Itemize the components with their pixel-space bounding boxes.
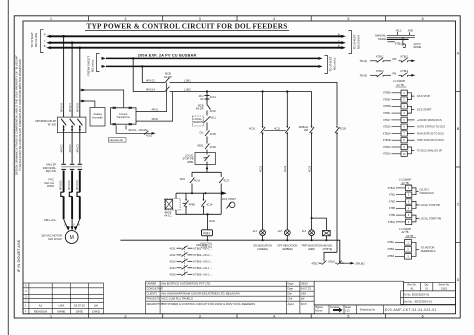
overload element B <box>77 192 80 196</box>
wire annunciator tap <box>312 218 327 230</box>
svg-text:4C20: 4C20 <box>209 220 216 223</box>
MPCB pole B <box>77 119 82 133</box>
svg-text:DATE: DATE <box>76 309 83 313</box>
svg-text:4: 4 <box>273 17 275 21</box>
svg-text:1:10: 1:10 <box>345 311 350 313</box>
contactor linkage <box>61 166 82 168</box>
svg-text:4SS1: 4SS1 <box>197 144 204 148</box>
svg-text:KTB08: KTB08 <box>383 105 391 108</box>
bracket local stop <box>412 202 419 209</box>
svg-text:4L3: 4L3 <box>302 230 307 233</box>
arrow to sheet left B <box>46 46 51 49</box>
svg-text:(RED): (RED) <box>308 248 315 251</box>
arrow CT tap <box>81 89 86 92</box>
svg-text:4L2: 4L2 <box>278 230 283 233</box>
svg-text:5A-DP: 5A-DP <box>196 107 204 111</box>
svg-text:KTB03—NO-3 →: KTB03—NO-3 → <box>194 261 213 264</box>
svg-text:4PV1-R: 4PV1-R <box>60 103 64 112</box>
junction dot chain tap <box>206 90 208 92</box>
svg-text:4PVC02: 4PVC02 <box>67 180 71 190</box>
svg-text:4PU1: 4PU1 <box>152 108 159 112</box>
wire control N line <box>171 91 312 93</box>
arrow to sheet right R <box>341 35 346 38</box>
busbar Y phase <box>51 42 342 44</box>
terminal strip A1TB <box>383 90 407 156</box>
junction dot Y tap <box>71 41 74 44</box>
linkage wire contacts <box>264 129 286 131</box>
arrow to sheet left Y <box>46 41 51 44</box>
svg-text:Job No.: E0323024-01: Job No.: E0323024-01 <box>403 299 432 303</box>
svg-text:1: 1 <box>50 315 52 319</box>
svg-text:6A-DP: 6A-DP <box>164 75 172 79</box>
svg-text:4C22: 4C22 <box>283 165 287 172</box>
company title table <box>146 281 315 314</box>
svg-text:3: 3 <box>199 17 201 21</box>
aux contact row 2 <box>170 252 213 257</box>
ruler ticks bottom <box>88 314 385 318</box>
svg-text:Dsn: Dsn <box>288 292 293 296</box>
svg-text:UESA: UESA <box>301 282 308 286</box>
selector switch 4SL1 manual/auto <box>375 34 386 41</box>
wire RUN STATUS TO DCS <box>407 132 414 134</box>
svg-text:KTB10: KTB10 <box>383 126 391 129</box>
ammeter P1 <box>90 108 105 127</box>
svg-text:4C1B: 4C1B <box>340 128 347 131</box>
svg-text:A2 TB: A2 TB <box>406 234 413 238</box>
junction dot latch top <box>206 167 208 169</box>
svg-text:DCS START: DCS START <box>417 108 432 112</box>
label contactor KM1 <box>43 163 57 174</box>
svg-text:LW: LW <box>301 297 305 301</box>
contactor KM1 pole Y <box>70 164 75 169</box>
svg-text:4C16: 4C16 <box>194 180 201 183</box>
wire latch top split <box>192 168 221 176</box>
svg-text:01/01: 01/01 <box>441 288 448 291</box>
arrow ammeter tap <box>81 100 86 103</box>
junction dot mid rail 2 <box>204 192 206 194</box>
local stop PB box <box>195 153 216 165</box>
svg-text:4C10: 4C10 <box>249 128 256 131</box>
svg-text:2-1.5QMM: 2-1.5QMM <box>399 178 411 181</box>
svg-text:Sheet No.: Sheet No. <box>439 284 450 287</box>
contact DCS stop <box>205 143 210 153</box>
wire CT secondary 4PU2 <box>136 92 173 122</box>
svg-text:OWNER: OWNER <box>147 283 157 286</box>
cable segment Y lower <box>71 196 73 219</box>
svg-text:SI No: E0323024-01: SI No: E0323024-01 <box>403 293 430 297</box>
svg-text:CHKD: CHKD <box>92 309 100 313</box>
svg-text:KTBL1: KTBL1 <box>376 55 384 58</box>
svg-text:4SU2: 4SU2 <box>146 134 153 137</box>
interlock contact row 2 <box>360 70 416 78</box>
svg-text:USA: USA <box>59 304 65 308</box>
wire AUTO STATUS TO DCS <box>407 126 414 128</box>
wire control L line <box>171 83 338 126</box>
svg-text:M: M <box>70 235 74 241</box>
svg-text:200A EXP. 2A PV CU BUSBAR: 200A EXP. 2A PV CU BUSBAR <box>138 54 197 58</box>
hooter contact 1 <box>319 261 326 265</box>
svg-text:LOCAL START PB: LOCAL START PB <box>420 217 442 221</box>
contact remote branch <box>219 176 224 193</box>
svg-text:MTB1: MTB1 <box>388 241 395 244</box>
wire into motor V <box>71 219 73 230</box>
svg-text:4PVC3: 4PVC3 <box>76 144 80 153</box>
selector switch 4SL1 <box>192 116 203 126</box>
title underline <box>85 30 289 32</box>
svg-text:Date: Date <box>288 287 294 291</box>
svg-text:KTB1B: KTB1B <box>383 139 391 142</box>
branch test PB column <box>335 127 340 252</box>
svg-text:KTB04—NC-1 →: KTB04—NC-1 → <box>194 267 213 270</box>
wire labels 4PVC01-03 <box>59 180 79 190</box>
arrow to sheet right B <box>341 46 346 49</box>
wire B mid <box>79 133 81 164</box>
push button DCS start <box>226 203 231 209</box>
svg-text:(AMBER): (AMBER) <box>282 248 293 251</box>
arrow to sheet right Y <box>341 41 346 44</box>
svg-text:AND: AND <box>408 30 413 33</box>
aux contact row 5 <box>170 272 213 277</box>
wire coil to neutral <box>207 236 209 240</box>
svg-text:OVERLOCK: OVERLOCK <box>420 191 435 195</box>
paper edge line <box>7 0 9 335</box>
svg-text:IF IN DOUBT ASK: IF IN DOUBT ASK <box>16 239 21 272</box>
svg-text:LOCAL STOP PB: LOCAL STOP PB <box>420 203 441 207</box>
svg-text:Transformer: Transformer <box>116 116 130 119</box>
svg-text:4C02: 4C02 <box>210 110 217 113</box>
arrowhead W <box>74 226 77 231</box>
svg-text:Y: Y <box>338 39 340 43</box>
arrow to sheet left R <box>46 35 51 38</box>
svg-text:4C04: 4C04 <box>170 267 177 270</box>
wire into motor W <box>76 219 80 230</box>
svg-text:DCS START: DCS START <box>222 198 236 201</box>
junction dot L1 tap <box>132 57 134 59</box>
svg-text:PM: PM <box>393 72 397 75</box>
wire labels 4PV1 4PV2 4PV3 <box>60 103 80 112</box>
wire labels 4PVC1-3 <box>60 144 80 153</box>
svg-text:R: R <box>338 32 340 36</box>
svg-text:'M' S/D: 'M' S/D <box>48 123 57 127</box>
svg-text:MCC CUM PLC PANELS: MCC CUM PLC PANELS <box>162 297 193 301</box>
cable segment B upper <box>79 171 81 193</box>
disclaimer note rotated left margin <box>15 55 22 175</box>
svg-text:Neutral Link: Neutral Link <box>110 139 124 142</box>
motor M <box>65 231 78 244</box>
svg-text:DM: DM <box>393 58 397 61</box>
bracket to sheet top-right <box>349 31 352 54</box>
hooter contact 2 <box>335 261 351 265</box>
bracket DCS start <box>407 106 414 113</box>
svg-text:+24V/0V FROM DCS: +24V/0V FROM DCS <box>417 118 442 122</box>
svg-text:Y: Y <box>44 39 46 43</box>
svg-text:4PVC01: 4PVC01 <box>59 180 63 190</box>
arrowhead U <box>67 226 70 231</box>
interlock contact row 1 <box>360 55 416 63</box>
svg-text:TYP POWER & CONTROL CIRCUI: TYP POWER & CONTROL CIRCUIT FOR DOL FEED… <box>87 23 288 31</box>
svg-text:TYP POWER & CONTROL CIRCUIT FO: TYP POWER & CONTROL CIRCUIT FOR 16KW & 4… <box>162 302 256 306</box>
svg-text:A2 TB: A2 TB <box>402 231 409 234</box>
wire Y mid <box>71 133 73 164</box>
timer block 4MCB 4A-1C <box>164 198 180 210</box>
svg-text:NAME: NAME <box>57 309 65 313</box>
svg-text:4C21: 4C21 <box>258 165 262 172</box>
switch MCB 5A-DP <box>207 103 211 114</box>
bracket to motor terminals <box>412 242 420 256</box>
svg-text:E03-AMF-CKT-33-24-024-01: E03-AMF-CKT-33-24-024-01 <box>385 308 437 312</box>
ruler ticks right <box>456 92 461 243</box>
lamp branch ON <box>261 92 266 230</box>
bracket overload interlock <box>412 188 419 195</box>
contact O/L trip <box>205 130 210 143</box>
contact start PB local <box>183 193 189 214</box>
svg-text:Template: Template <box>330 306 340 309</box>
svg-text:KN.5: KN.5 <box>301 302 307 306</box>
svg-text:KTB11: KTB11 <box>388 221 396 224</box>
svg-text:NO.xx/xx: NO.xx/xx <box>91 59 95 72</box>
junction dot N tap <box>141 65 143 67</box>
svg-text:TO DCS ANALOG I/P: TO DCS ANALOG I/P <box>417 148 442 152</box>
junction dot R tap <box>62 35 65 38</box>
MPCB pole Y <box>70 119 75 133</box>
svg-text:Drawing No.: Drawing No. <box>360 308 376 312</box>
svg-text:4A-1C: 4A-1C <box>164 215 171 218</box>
lamp branch TRIP <box>310 92 315 230</box>
svg-text:KTB11: KTB11 <box>383 112 391 115</box>
aux contact row 3 <box>170 259 213 264</box>
svg-text:4C03: 4C03 <box>170 261 177 264</box>
MCB 6A-DP pole 1 <box>165 78 171 83</box>
svg-text:KTB1A: KTB1A <box>383 132 391 135</box>
grid numbers top <box>50 17 424 21</box>
svg-text:2-1.5QMM: 2-1.5QMM <box>393 80 405 83</box>
wire latch mid rail <box>176 193 221 198</box>
busbar control L1 <box>106 57 318 59</box>
svg-text:NO.xx/xx: NO.xx/xx <box>333 57 337 70</box>
svg-text:6A: 6A <box>200 97 203 101</box>
svg-text:4PVC03: 4PVC03 <box>75 180 79 190</box>
svg-text:TRIP STATUS TO DCS: TRIP STATUS TO DCS <box>417 138 444 142</box>
label TO SHEET NO.xx/xx <box>329 56 337 72</box>
svg-text:Qty.: Qty. <box>424 284 429 287</box>
wire R mid <box>63 133 65 164</box>
svg-text:Ammeter: Ammeter <box>92 116 103 120</box>
label cable type <box>44 178 54 189</box>
svg-text:A/2mm: A/2mm <box>315 310 322 313</box>
overload element Y <box>69 192 72 196</box>
label FROM SHEET NO.xx/xx <box>87 56 95 76</box>
svg-text:2: 2 <box>125 17 127 21</box>
svg-text:6: 6 <box>422 315 424 319</box>
contact KM1 hold-in <box>190 176 195 193</box>
label motor rating <box>41 234 62 241</box>
svg-text:4C23: 4C23 <box>307 165 311 172</box>
svg-text:KTBL2: KTBL2 <box>395 42 403 45</box>
svg-text:TB-4Q: TB-4Q <box>360 60 367 63</box>
svg-text:B: B <box>44 44 46 48</box>
neutral link box <box>108 138 126 142</box>
svg-text:KTB05—NC-2 →: KTB05—NC-2 → <box>194 274 213 277</box>
MPCB Q1 enclosure <box>57 117 86 133</box>
border inner frame <box>23 21 456 314</box>
svg-text:3: 3 <box>199 315 201 319</box>
busbar R phase <box>51 35 342 37</box>
svg-text:KBLA: KBLA <box>329 261 336 264</box>
phase tags right <box>338 32 340 47</box>
svg-text:6: 6 <box>422 17 424 21</box>
svg-text:4C14: 4C14 <box>206 203 213 206</box>
svg-text:NO.03/1/A: NO.03/1/A <box>357 34 361 49</box>
svg-text:4FU/14: 4FU/14 <box>146 88 155 92</box>
svg-text:Dsgn: Dsgn <box>288 282 295 286</box>
svg-text:CONSULTANT: CONSULTANT <box>147 288 164 291</box>
svg-text:TERMINALS: TERMINALS <box>421 249 436 253</box>
arrow CT earth <box>152 132 156 135</box>
svg-text:KTB9: KTB9 <box>389 214 396 217</box>
svg-text:D: D <box>457 278 460 282</box>
drawing number block <box>314 281 455 314</box>
svg-text:REMOTE: REMOTE <box>193 121 204 124</box>
label TO SHEET NO.01/2/E <box>30 32 38 48</box>
svg-text:L1M1: L1M1 <box>184 79 191 83</box>
bracket DCS analog <box>407 147 414 154</box>
svg-text:MPCB/MCCB-3P: MPCB/MCCB-3P <box>35 119 56 123</box>
svg-text:AUTO STATUS TO DCS: AUTO STATUS TO DCS <box>417 125 445 129</box>
wire N tap drop <box>142 66 165 82</box>
lamp OFF amber <box>284 230 290 236</box>
MCB 6A-DP pole 2 <box>165 87 171 92</box>
svg-text:C: C <box>457 203 460 207</box>
junction dot mid rail <box>191 192 193 194</box>
svg-text:4C01: 4C01 <box>170 247 177 250</box>
phase labels U V W <box>64 224 81 227</box>
svg-text:L1M2: L1M2 <box>184 88 191 92</box>
svg-text:USA: USA <box>301 292 307 296</box>
svg-text:KTB1: KTB1 <box>389 194 396 197</box>
svg-text:KM1~A3~: KM1~A3~ <box>44 218 57 222</box>
svg-text:NO.01/2/E: NO.01/2/E <box>34 33 38 47</box>
contact CT earth <box>144 131 149 135</box>
svg-text:KTB14: KTB14 <box>383 153 391 156</box>
lamp TRIP red <box>309 230 315 236</box>
cable segment R lower <box>63 196 65 219</box>
wire phase B drop <box>79 48 81 117</box>
wire phase Y drop <box>71 43 73 117</box>
MPCB pole R <box>61 119 66 133</box>
svg-text:KTB01—NO-1 →: KTB01—NO-1 → <box>194 247 213 250</box>
svg-text:KTB2: KTB2 <box>389 200 396 203</box>
svg-text:4PVC1: 4PVC1 <box>60 144 64 153</box>
grid numbers bottom <box>50 315 424 319</box>
svg-text:4PB2: 4PB2 <box>189 203 196 206</box>
svg-text:SLD S/4 HP: SLD S/4 HP <box>48 237 62 241</box>
contact start DCS <box>201 193 206 214</box>
junction dots neutral bus <box>207 239 209 241</box>
svg-text:RUN STATUS TO DCS: RUN STATUS TO DCS <box>417 131 444 135</box>
cable segment R upper <box>63 171 65 193</box>
overload element R <box>61 192 64 196</box>
contactor KM1 pole B <box>78 164 83 169</box>
junction dot latch bottom <box>206 213 208 215</box>
cable segment Y upper <box>71 171 73 193</box>
svg-text:Appd: Appd <box>288 302 295 306</box>
svg-text:Analog: Analog <box>93 112 102 116</box>
svg-text:4C05: 4C05 <box>170 274 177 277</box>
svg-text:2: 2 <box>125 315 127 319</box>
bracket from sheet <box>97 54 100 72</box>
svg-text:IT SHOULD NOT BE USED IN ANY F: IT SHOULD NOT BE USED IN ANY FORM WITHOU… <box>18 59 22 170</box>
label KM1 coil <box>201 242 213 248</box>
svg-text:KTB07: KTB07 <box>383 98 391 101</box>
svg-text:04.07.23: 04.07.23 <box>301 287 312 291</box>
bracket DCS stop <box>407 93 414 100</box>
bracket to sheet top-left <box>41 30 44 53</box>
svg-text:4C06: 4C06 <box>210 146 217 149</box>
bracket to sheet mid-right <box>325 56 328 74</box>
wire ammeter tap <box>80 101 95 108</box>
arrow to sheet mid-right N <box>318 65 322 68</box>
svg-text:REVISION: REVISION <box>34 309 47 313</box>
wire CT earth <box>116 125 153 133</box>
svg-text:MTB3: MTB3 <box>388 255 395 258</box>
svg-text:M/s VISAKHAPATNAM SUGAR INDUST: M/s VISAKHAPATNAM SUGAR INDUSTRIES LTD, … <box>162 292 241 296</box>
svg-text:4C02: 4C02 <box>170 254 177 257</box>
svg-text:CLIENTS: CLIENTS <box>147 293 158 296</box>
svg-text:5: 5 <box>347 315 349 319</box>
alarm window unit <box>323 231 331 236</box>
wire TRIP STATUS TO DCS <box>407 139 414 141</box>
svg-text:SIRL/B2: SIRL/B2 <box>355 262 365 265</box>
phase tags R Y B <box>44 32 46 47</box>
wire +24V/0V FROM DCS <box>407 119 414 121</box>
svg-text:MODE: MODE <box>378 37 386 41</box>
busbar control N <box>106 65 318 67</box>
svg-text:5: 5 <box>347 17 349 21</box>
svg-text:MODE: MODE <box>414 45 422 49</box>
svg-text:4PU2: 4PU2 <box>152 117 159 121</box>
label MCB 6A-DP <box>164 72 172 79</box>
busbar B phase <box>51 47 342 49</box>
arrow to sheet mid-right L1 <box>318 57 322 60</box>
svg-text:4: 4 <box>273 315 275 319</box>
cable segment B lower <box>79 196 81 219</box>
svg-text:4C05: 4C05 <box>210 133 217 136</box>
svg-text:KTB13: KTB13 <box>383 146 391 149</box>
contactor KM1 pole R <box>61 164 66 169</box>
wire CT secondary 4PU1 <box>136 83 167 112</box>
svg-text:MTB2: MTB2 <box>388 248 395 251</box>
svg-text:4C17: 4C17 <box>223 180 230 183</box>
svg-text:Rev No.: Rev No. <box>407 284 416 287</box>
svg-text:18.07.23: 18.07.23 <box>74 304 85 308</box>
svg-text:KTBL4: KTBL4 <box>401 70 409 73</box>
bracket local start <box>412 215 419 222</box>
hooter branch jog <box>324 252 337 261</box>
svg-text:Scale: Scale <box>345 307 351 309</box>
aux contact row 4 <box>170 265 213 270</box>
ruler ticks top <box>88 16 385 21</box>
svg-text:B: B <box>338 44 340 48</box>
svg-text:A2 TB: A2 TB <box>402 181 409 185</box>
svg-text:KTBL2: KTBL2 <box>401 55 409 58</box>
svg-text:4PVC2: 4PVC2 <box>68 144 72 153</box>
svg-text:DM: DM <box>304 129 308 132</box>
wire L1 tap drop <box>133 58 165 91</box>
coil KM1 <box>202 230 213 236</box>
wire into motor U <box>64 219 68 230</box>
svg-text:A1: A1 <box>39 304 43 308</box>
svg-text:A1 TB: A1 TB <box>397 83 404 87</box>
